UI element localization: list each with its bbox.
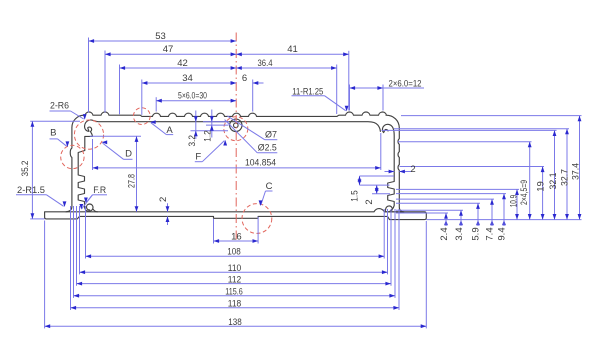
dimension 37.4 (571, 116, 582, 220)
extension line x=426.3 down (425, 221, 427, 328)
extension line y=141.7 (398, 141, 532, 143)
label Ø2.5 (225, 120, 278, 154)
extension line x=79.5 down (79, 206, 81, 274)
dimension 110 (80, 263, 388, 274)
svg-text:2.4: 2.4 (439, 227, 450, 240)
extension line x=85.5 down (85, 206, 87, 259)
extension line y=203.3 (396, 202, 480, 204)
svg-text:B: B (50, 128, 56, 139)
svg-text:41: 41 (287, 44, 298, 55)
svg-text:5.9: 5.9 (471, 227, 482, 240)
svg-text:1.2: 1.2 (203, 130, 214, 142)
svg-text:1.5: 1.5 (350, 190, 361, 202)
svg-text:C: C (266, 181, 273, 192)
extension line x=156.2 (155, 97, 157, 111)
extension line y=130.7 (191, 130, 229, 132)
dimension 41 (236, 44, 349, 56)
extension line x=384.2 down (383, 209, 385, 259)
label 11-R1.25 (292, 86, 349, 111)
svg-text:16: 16 (231, 232, 242, 243)
svg-text:F: F (195, 151, 201, 162)
red circle C (242, 204, 272, 234)
svg-text:37.4: 37.4 (571, 163, 582, 180)
dimension 3.4 (454, 210, 465, 240)
svg-text:9.4: 9.4 (497, 227, 508, 240)
svg-text:10.9: 10.9 (508, 195, 519, 208)
svg-text:32.7: 32.7 (560, 169, 571, 186)
baseline y=219.6 right (426, 219, 581, 221)
extension line y=218.9 left (30, 218, 44, 220)
dimension 138 (45, 317, 427, 328)
dimension 32.7 (560, 129, 571, 220)
svg-text:115.6: 115.6 (225, 287, 243, 298)
dimension 2 plate thickness (158, 197, 169, 225)
dimension 47 (105, 44, 236, 56)
extension line x=76.5 down (76, 206, 78, 286)
svg-text:2: 2 (410, 164, 415, 175)
extension line y=189.4 (396, 188, 519, 190)
extension line x=380.8 hook (380, 133, 382, 170)
dimension 27.8 (126, 136, 138, 212)
extension line x=88.5 (88, 38, 90, 113)
red centerline (235, 33, 237, 242)
extension line x=387.5 down (387, 209, 389, 274)
extension line x=383 (382, 85, 384, 111)
red circle F (224, 117, 248, 141)
extension line y=193.7 (372, 193, 390, 195)
label 2-R1.5 (16, 185, 66, 207)
svg-text:D: D (125, 149, 132, 160)
svg-text:3.2: 3.2 (187, 135, 198, 147)
svg-text:Ø2.5: Ø2.5 (258, 142, 277, 153)
extension line y=121.7 boss (203, 121, 229, 123)
extension line x=44.6 down (44, 221, 46, 329)
extension line y=128.7 right (394, 128, 569, 130)
svg-text:Ø7: Ø7 (265, 130, 277, 141)
extension line x=70.5 down (70, 206, 72, 310)
svg-text:104.854: 104.854 (245, 158, 276, 169)
svg-text:35.2: 35.2 (20, 161, 31, 177)
svg-text:138: 138 (228, 317, 242, 328)
svg-text:32.1: 32.1 (548, 173, 559, 190)
svg-text:53: 53 (155, 31, 166, 42)
extension line y=136.3 (90, 135, 141, 137)
dimension 112 (77, 274, 392, 285)
svg-text:5×6.0=30: 5×6.0=30 (178, 91, 207, 102)
extension line y=121.2 (30, 120, 80, 122)
dimension 2x6.0=12 (350, 79, 425, 90)
svg-text:6: 6 (242, 73, 247, 84)
dimension 5x6.0=30 (156, 91, 236, 103)
extension line x=258.1 down (257, 217, 259, 244)
svg-text:19: 19 (536, 181, 547, 192)
label A (150, 120, 173, 136)
dimension 118 (71, 299, 400, 310)
extension line x=73.5 down (73, 206, 75, 298)
label 2-R6 (50, 100, 87, 119)
extension line x=395.0 down (394, 209, 396, 298)
screw pilot hole (Ø2.5) (234, 123, 239, 128)
dimension 2 wall thickness (385, 164, 416, 175)
svg-text:108: 108 (227, 247, 241, 258)
label C (259, 181, 273, 206)
dimension 3.2 (187, 111, 198, 147)
svg-text:27.8: 27.8 (126, 174, 137, 188)
red circle A (133, 108, 150, 125)
dimension 7.4 (485, 199, 496, 241)
extension line y=115.6 right (401, 115, 582, 117)
dimension 2.4 (439, 213, 450, 241)
svg-text:118: 118 (228, 299, 242, 310)
label D (102, 140, 133, 159)
extension line y=193.6 (396, 193, 506, 195)
extension line y=213.0 (396, 212, 448, 214)
svg-text:112: 112 (228, 274, 242, 285)
dimension 115.6 (74, 287, 396, 298)
dimension 5.9 (471, 203, 482, 240)
extension line x=391.0 down (390, 209, 392, 286)
extension line y=210.2 (396, 209, 463, 211)
extension line y=199.1 (396, 198, 494, 200)
dimension 10.9 (508, 189, 519, 219)
label Ø7 (227, 116, 277, 141)
profile shell outline (66, 112, 404, 212)
bottom plate outline (45, 209, 427, 220)
screw boss F (Ø7) (230, 119, 242, 131)
extension line x=119.5 (119, 65, 121, 115)
svg-text:2: 2 (158, 197, 169, 202)
dimension 9.4 (497, 194, 508, 241)
svg-text:47: 47 (163, 44, 174, 55)
svg-text:110: 110 (228, 263, 242, 274)
dimension 6 (227, 73, 263, 85)
svg-text:2×6.0=12: 2×6.0=12 (389, 79, 422, 90)
extension line y=185.1 (360, 184, 390, 186)
extension line y=176 (360, 175, 395, 177)
dimension 34 (142, 73, 236, 85)
dimension 32.1 (548, 130, 559, 219)
label F.R (79, 185, 107, 210)
extension line x=92.5 hook (92, 139, 94, 170)
dimension 35.2 (20, 121, 34, 219)
svg-text:2×4,5=9: 2×4,5=9 (519, 180, 530, 205)
extension line x=213.5 down (213, 219, 215, 244)
extension line x=141.8 (141, 80, 143, 115)
dimension 42 (120, 58, 237, 70)
svg-text:34: 34 (182, 73, 193, 84)
dimension 104.854 (93, 158, 381, 170)
svg-text:2-R6: 2-R6 (50, 100, 69, 111)
extension line y=130.4 right (382, 129, 557, 131)
dimension 16 (214, 232, 259, 243)
dimension 2 right (364, 185, 379, 205)
extension line y=166.5 right (400, 166, 545, 168)
svg-text:36.4: 36.4 (258, 58, 273, 69)
dimension 19 (536, 167, 547, 220)
dimension 2x4,5=9 (519, 142, 532, 220)
dimension 53 (89, 31, 237, 43)
extension line x=399.0 down (398, 209, 400, 310)
label F (195, 140, 227, 163)
extension line x=348.8 (348, 51, 350, 111)
red circle D (74, 120, 103, 149)
extension line x=252.7 (252, 80, 254, 112)
dimension 36.4 (236, 58, 337, 70)
svg-text:42: 42 (177, 58, 188, 69)
extension line x=349.5 (349, 85, 351, 111)
extension line x=105 (104, 51, 106, 113)
dimension 1.2 (203, 110, 214, 142)
svg-text:2: 2 (364, 199, 375, 204)
svg-text:F.R: F.R (93, 185, 106, 196)
label B (50, 128, 70, 147)
red circle B (61, 145, 84, 168)
svg-text:3.4: 3.4 (454, 227, 465, 240)
extension line y=125.1 (206, 124, 229, 126)
dimension 1.5 right (350, 176, 362, 202)
svg-text:7.4: 7.4 (485, 227, 496, 240)
dimension 108 (86, 247, 385, 259)
extension line x=336.7 (336, 65, 338, 115)
